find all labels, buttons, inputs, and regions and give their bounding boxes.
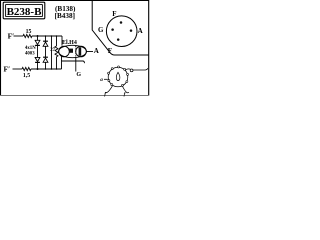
svg-text:F: F — [108, 47, 112, 55]
svg-text:A: A — [138, 27, 143, 35]
svg-text:G: G — [76, 72, 81, 78]
svg-text:B238-B: B238-B — [7, 6, 43, 18]
svg-text:A: A — [94, 47, 99, 55]
svg-text:F′: F′ — [8, 31, 15, 40]
svg-text:El.H4: El.H4 — [62, 40, 77, 46]
svg-text:F′: F′ — [4, 65, 11, 74]
svg-text:F: F — [112, 10, 116, 18]
svg-text:G: G — [98, 26, 104, 34]
svg-text:4003: 4003 — [25, 52, 35, 57]
svg-text:[B438]: [B438] — [55, 12, 75, 20]
svg-text:15: 15 — [26, 29, 32, 35]
svg-text:27: 27 — [50, 48, 55, 53]
svg-text:a: a — [100, 77, 103, 83]
svg-text:1,5: 1,5 — [23, 73, 30, 79]
svg-text:4x1N: 4x1N — [25, 46, 36, 51]
